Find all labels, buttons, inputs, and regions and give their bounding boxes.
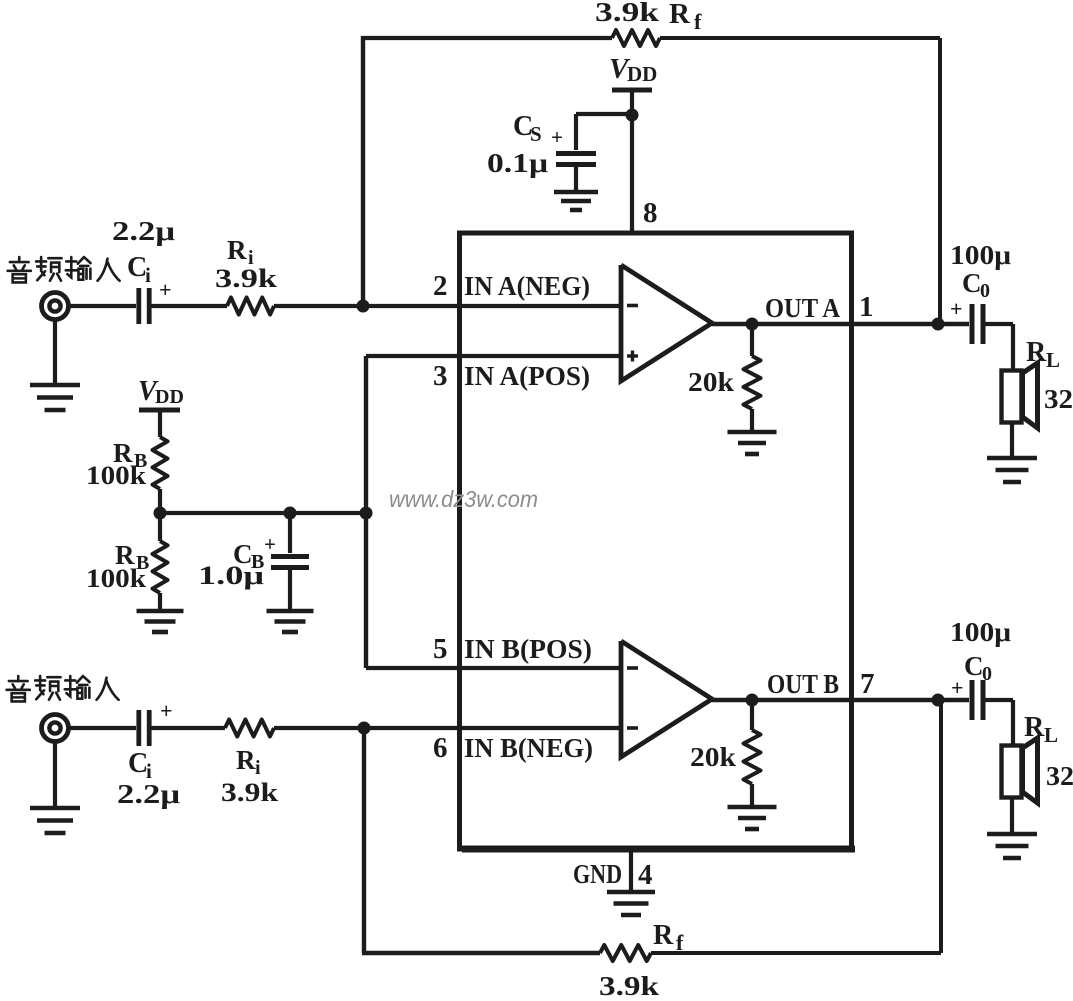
svg-text:DD: DD [155, 386, 184, 408]
svg-text:R: R [1024, 712, 1045, 743]
svg-text:L: L [1046, 348, 1060, 372]
svg-text:f: f [676, 930, 684, 955]
svg-text:OUT B: OUT B [767, 669, 839, 699]
svg-text:R: R [669, 0, 691, 30]
svg-text:0: 0 [982, 663, 992, 685]
svg-text:20k: 20k [690, 742, 736, 772]
svg-text:2: 2 [433, 270, 448, 302]
svg-text:+: + [159, 277, 172, 302]
svg-text:GND: GND [573, 859, 622, 889]
svg-text:8: 8 [643, 197, 658, 229]
svg-text:C: C [962, 268, 982, 298]
svg-text:3.9k: 3.9k [595, 0, 659, 27]
svg-text:L: L [1044, 723, 1058, 747]
svg-text:R: R [1026, 337, 1047, 368]
svg-text:3.9k: 3.9k [221, 778, 279, 807]
svg-text:32: 32 [1044, 384, 1073, 414]
svg-text:7: 7 [860, 668, 875, 700]
svg-text:DD: DD [627, 62, 657, 86]
svg-text:C: C [964, 651, 984, 681]
svg-text:IN B(NEG): IN B(NEG) [464, 733, 593, 763]
svg-text:3.9k: 3.9k [599, 971, 659, 996]
svg-text:+: + [264, 532, 276, 556]
svg-text:OUT A: OUT A [765, 293, 840, 323]
svg-text:100μ: 100μ [950, 617, 1011, 647]
svg-text:R: R [227, 235, 247, 265]
svg-text:100μ: 100μ [950, 240, 1011, 270]
svg-text:+: + [160, 698, 173, 723]
svg-text:32: 32 [1046, 761, 1073, 791]
svg-text:3.9k: 3.9k [215, 264, 278, 293]
svg-text:4: 4 [638, 859, 653, 891]
svg-text:3: 3 [433, 360, 448, 392]
svg-text:+: + [951, 675, 964, 700]
svg-text:2.2μ: 2.2μ [112, 216, 175, 246]
svg-text:i: i [255, 757, 261, 779]
svg-text:6: 6 [433, 732, 448, 764]
svg-text:R: R [236, 745, 256, 775]
svg-text:IN B(POS): IN B(POS) [464, 634, 592, 664]
svg-text:IN A(POS): IN A(POS) [464, 361, 590, 391]
svg-text:0: 0 [980, 280, 990, 302]
svg-text:100k: 100k [86, 564, 147, 593]
svg-text:1.0μ: 1.0μ [198, 561, 264, 590]
svg-text:+: + [551, 125, 563, 149]
svg-text:IN A(NEG): IN A(NEG) [464, 271, 590, 301]
svg-text:5: 5 [433, 633, 448, 665]
svg-text:i: i [145, 263, 151, 287]
svg-text:f: f [694, 9, 702, 34]
svg-text:2.2μ: 2.2μ [117, 779, 180, 809]
svg-text:www.dz3w.com: www.dz3w.com [389, 486, 538, 512]
svg-text:S: S [530, 122, 542, 146]
svg-text:20k: 20k [688, 367, 734, 397]
svg-text:+: + [950, 296, 963, 321]
svg-text:R: R [653, 920, 674, 951]
svg-text:0.1μ: 0.1μ [487, 148, 548, 178]
svg-text:100k: 100k [86, 461, 147, 490]
svg-text:1: 1 [859, 291, 874, 323]
